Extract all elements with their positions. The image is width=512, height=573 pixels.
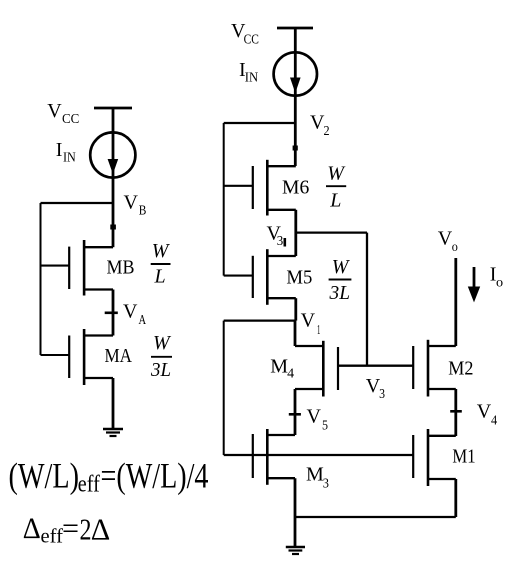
svg-text:L: L: [154, 266, 166, 288]
node tick below VB: [110, 225, 116, 230]
wire: M2 source to M1 drain (node V4): [454, 389, 457, 436]
wire: VB to MB drain: [112, 203, 115, 247]
svg-text:MB: MB: [107, 257, 135, 279]
equation (W/L)eff=(W/L)/4: [9, 455, 209, 497]
transistor MA: [41, 329, 114, 385]
wire: V2 to M6 drain: [294, 123, 297, 166]
shared gate wire M3/M1 from lower rail: [224, 454, 414, 456]
transistor M4 (mirrored): [295, 341, 338, 397]
gate rail lower (right): [223, 321, 225, 455]
svg-text:=: =: [62, 511, 79, 546]
Vcc supply bar (left circuit): [94, 107, 132, 110]
label V5: [307, 406, 329, 434]
svg-text:V: V: [47, 100, 62, 122]
svg-text:3: 3: [277, 234, 284, 249]
svg-text:1: 1: [317, 323, 320, 338]
ground rail: [295, 516, 456, 518]
node tick below V2: [293, 146, 298, 151]
node V1: wire to lower gate rail: [224, 320, 296, 322]
value W/L for M6: [326, 163, 346, 212]
label V2: [310, 112, 330, 139]
gate bias rail upper (right): [223, 123, 225, 276]
gate bias rail (left): [40, 203, 42, 355]
svg-text:M: M: [270, 356, 288, 378]
svg-text:I: I: [56, 139, 63, 161]
svg-text:W: W: [327, 163, 346, 185]
label M4: [270, 356, 294, 382]
svg-text:3: 3: [379, 387, 385, 402]
svg-text:V: V: [438, 228, 453, 250]
svg-text:5: 5: [322, 419, 328, 434]
value W/3L for M5: [329, 256, 352, 304]
value W/3L for MA: [150, 332, 172, 381]
svg-text:eff: eff: [78, 471, 100, 497]
transistor M5: [224, 249, 296, 305]
wire: V3 branch to gates of M4/M2: [296, 233, 367, 366]
node VA: wire MB source to MA drain: [112, 290, 115, 336]
transistor M6: [224, 160, 296, 216]
svg-text:M6: M6: [282, 177, 309, 199]
label Vo: [438, 228, 458, 255]
transistor M3: [253, 429, 295, 485]
wire: V1 to M4 drain: [294, 321, 297, 346]
wire: MA source to ground: [112, 378, 115, 429]
svg-text:2: 2: [80, 512, 92, 547]
svg-text:CC: CC: [62, 112, 79, 127]
svg-text:V: V: [477, 400, 492, 422]
svg-text:W: W: [152, 240, 171, 262]
svg-text:M5: M5: [286, 267, 312, 289]
wire: M1 source to ground rail: [454, 479, 457, 517]
svg-text:3L: 3L: [329, 282, 350, 304]
transistor M1: [413, 429, 456, 486]
svg-text:o: o: [496, 276, 503, 291]
label IIN (left): [56, 139, 76, 166]
svg-text:IN: IN: [245, 71, 258, 86]
label VCC (left): [47, 100, 79, 127]
svg-text:M: M: [306, 464, 324, 486]
label Io: [490, 264, 503, 291]
output current Io arrow: [468, 267, 480, 302]
label VA: [123, 301, 147, 329]
svg-text:4: 4: [287, 367, 294, 382]
svg-text:3L: 3L: [150, 359, 171, 381]
wire: M3 source to ground: [294, 478, 297, 547]
svg-text:4: 4: [491, 414, 497, 429]
svg-text:o: o: [452, 240, 458, 255]
label VCC (right): [231, 20, 259, 48]
svg-text:M2: M2: [448, 357, 473, 379]
svg-text:=(W/L)/4: =(W/L)/4: [101, 455, 209, 495]
label V4: [477, 400, 497, 428]
svg-text:V: V: [307, 406, 322, 428]
label V3 (gate node): [366, 375, 385, 402]
svg-text:A: A: [139, 313, 147, 328]
svg-text:MA: MA: [105, 345, 133, 367]
Vcc supply bar (right circuit): [277, 27, 313, 30]
wire: Vcc bar through current source to VB: [112, 108, 115, 203]
node V3: wire M6 source to M5 drain: [294, 210, 297, 256]
label M3: [306, 464, 329, 492]
label V1: [301, 310, 321, 338]
svg-text:W: W: [332, 256, 351, 278]
node VB: wire to gate rail: [41, 202, 114, 204]
wire: gate net V3 between M4 and M2: [338, 365, 413, 367]
wire: Vcc bar through current source to V2: [294, 28, 297, 123]
label IIN (right): [239, 59, 258, 86]
svg-text:B: B: [139, 204, 147, 219]
transistor MB: [41, 240, 114, 296]
svg-text:3: 3: [323, 477, 329, 492]
ground (left circuit): [103, 429, 123, 436]
svg-text:M1: M1: [452, 445, 475, 467]
svg-text:L: L: [329, 190, 341, 212]
svg-text:2: 2: [324, 124, 330, 139]
svg-text:(W/L): (W/L): [9, 455, 80, 495]
svg-text:V: V: [301, 310, 316, 332]
node tick V4: [450, 410, 462, 413]
node tick V5: [289, 413, 301, 416]
svg-text:CC: CC: [244, 32, 259, 47]
node V2: wire to upper gate rail: [224, 122, 296, 124]
label VB: [124, 192, 147, 219]
transistor M2: [413, 340, 456, 397]
svg-text:Δ: Δ: [23, 512, 41, 545]
node tick VA: [105, 311, 118, 314]
svg-text:V: V: [124, 192, 139, 214]
ground (right circuit): [286, 547, 305, 554]
svg-text:W: W: [153, 332, 172, 354]
svg-text:IN: IN: [63, 151, 76, 166]
current source IIN (left): [90, 132, 135, 177]
wire: M5 source to V1: [294, 298, 297, 320]
wire: M4 source to M3 drain (node V5): [294, 389, 297, 435]
svg-text:Δ: Δ: [91, 512, 111, 547]
equation delta_eff = 2*delta: [23, 511, 111, 548]
current source IIN (right): [274, 52, 317, 95]
svg-text:eff: eff: [41, 526, 64, 548]
label V3 (drain node): [267, 222, 285, 248]
value W/L for MB: [151, 240, 171, 288]
svg-text:V: V: [123, 301, 138, 323]
wire: Vo to M2 drain: [454, 258, 457, 346]
